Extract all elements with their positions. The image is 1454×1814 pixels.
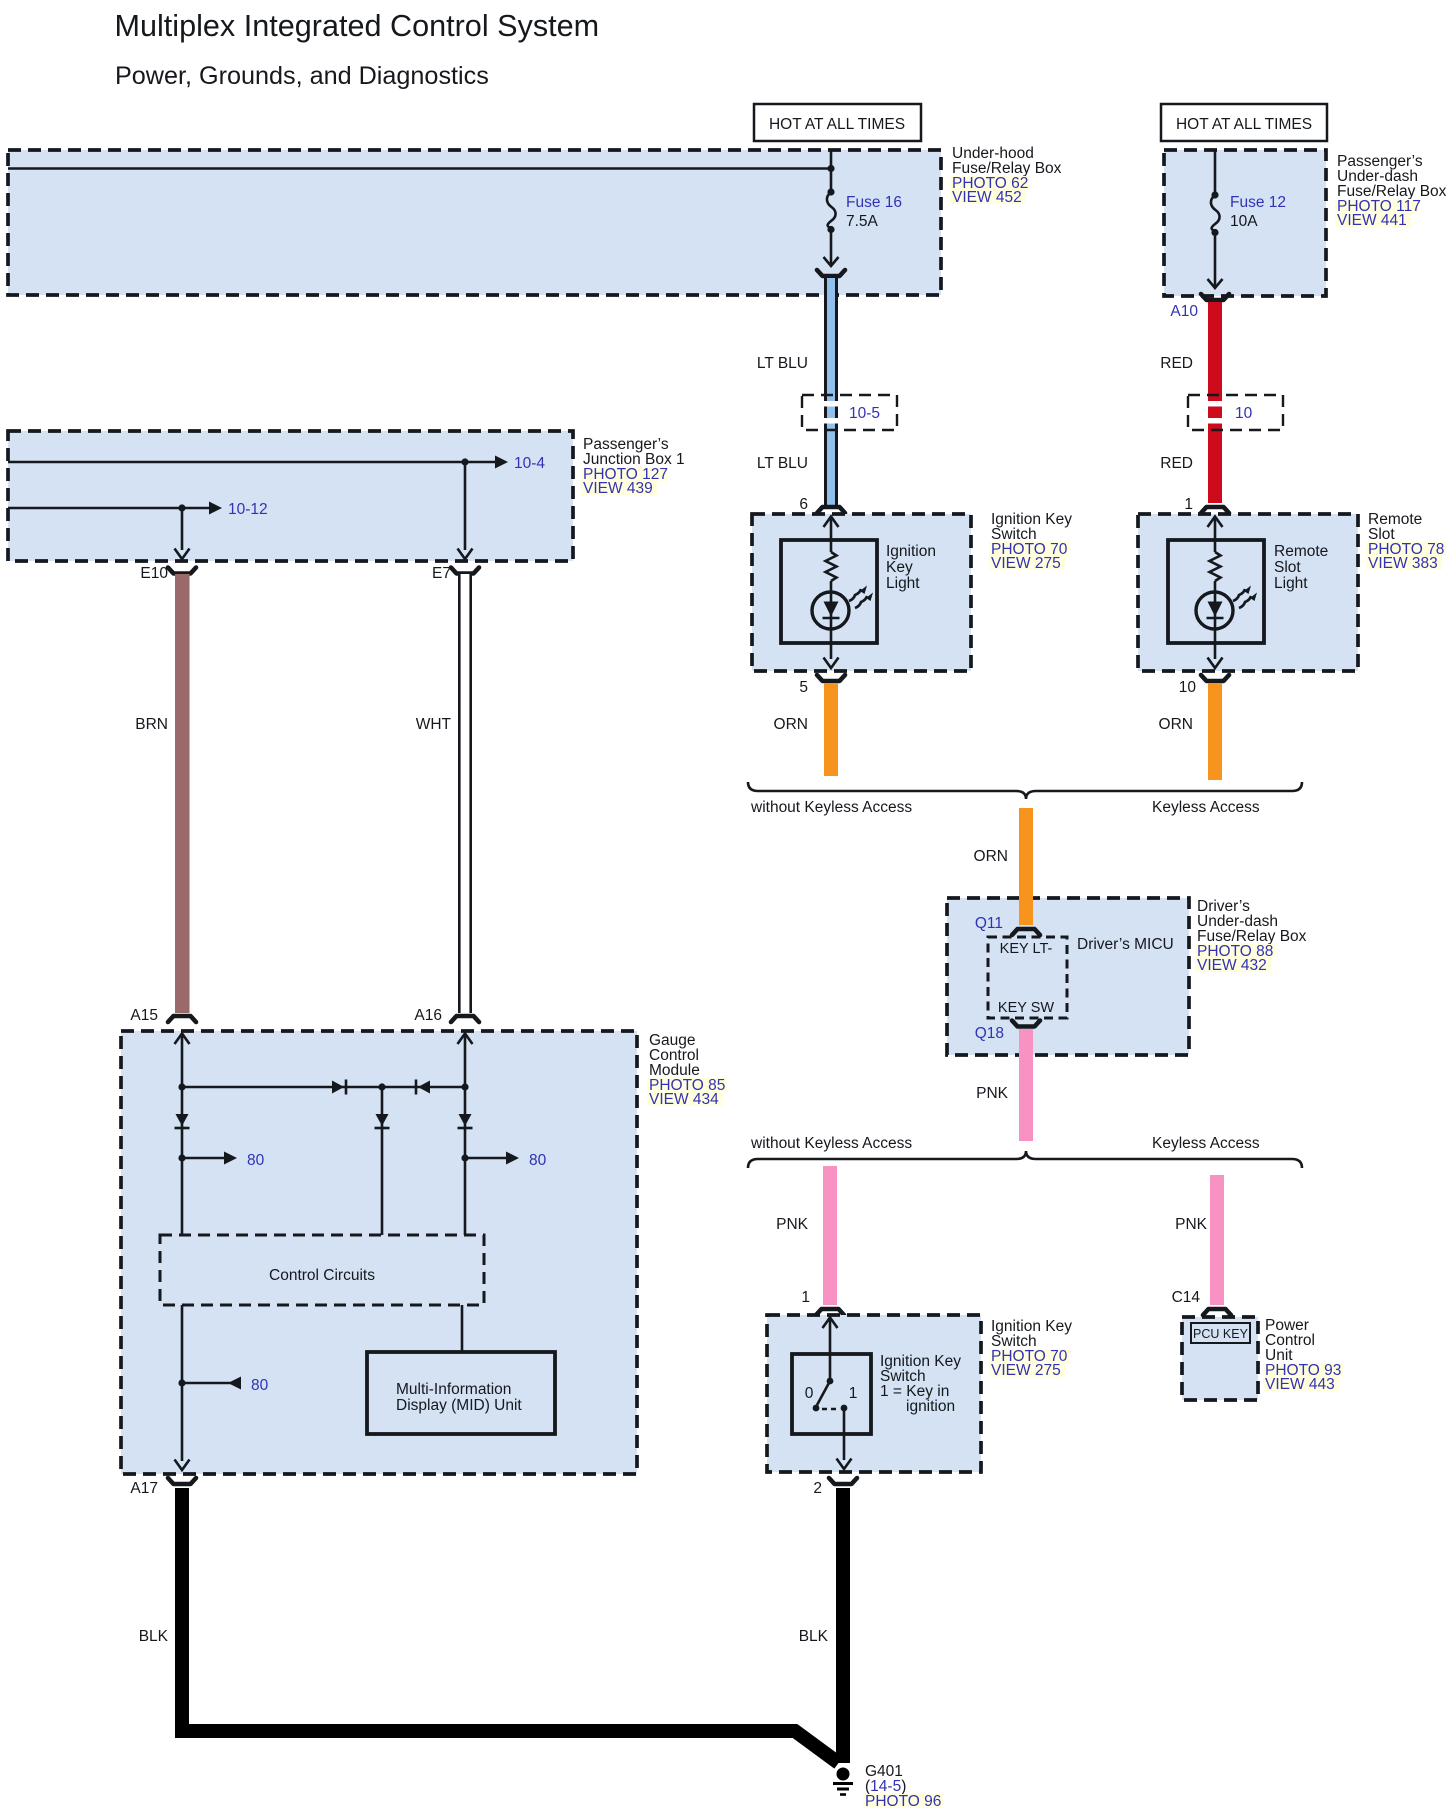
svg-text:10-5: 10-5 bbox=[849, 405, 880, 422]
label: Gauge Control Module bbox=[647, 1032, 727, 1108]
svg-text:VIEW 439: VIEW 439 bbox=[583, 480, 653, 497]
svg-text:80: 80 bbox=[529, 1152, 547, 1169]
svg-text:HOT AT ALL TIMES: HOT AT ALL TIMES bbox=[769, 116, 905, 133]
label: Driver's Under-dash Fuse/Relay Box bbox=[1195, 898, 1307, 974]
label G401 (14-5) PHOTO 96 bbox=[863, 1763, 943, 1810]
connector cap bottom of LT BLU bbox=[817, 507, 845, 513]
ignition key switch box (bottom) bbox=[767, 1315, 981, 1472]
svg-text:BRN: BRN bbox=[135, 716, 168, 733]
wire to 10-4 bbox=[8, 461, 497, 464]
arrow down into connector bbox=[824, 257, 839, 266]
LED light emission arrows bbox=[849, 586, 873, 609]
ignition key switch box bbox=[752, 514, 971, 671]
svg-text:C14: C14 bbox=[1172, 1289, 1201, 1306]
wire to 80 (right) bbox=[465, 1157, 508, 1160]
node 80-left bbox=[178, 1154, 185, 1161]
svg-text:1: 1 bbox=[801, 1289, 810, 1306]
MID unit box bbox=[367, 1352, 555, 1434]
wire down to switch pivot bbox=[829, 1318, 832, 1381]
diode D1 (points right) bbox=[332, 1080, 346, 1095]
svg-text:10: 10 bbox=[1235, 405, 1253, 422]
svg-text:5: 5 bbox=[799, 679, 808, 696]
connector cap bottom of PNK (right) bbox=[1203, 1309, 1231, 1315]
svg-text:7.5A: 7.5A bbox=[846, 213, 879, 230]
switch SW1 (0/1) bbox=[805, 1378, 858, 1412]
node right bbox=[461, 1083, 468, 1090]
svg-text:10: 10 bbox=[1179, 679, 1197, 696]
svg-text:E7: E7 bbox=[432, 565, 451, 582]
connector cap bottom of PNK (left) bbox=[816, 1309, 844, 1315]
wire horizontal diode row bbox=[182, 1086, 465, 1089]
svg-text:VIEW 434: VIEW 434 bbox=[649, 1091, 719, 1108]
svg-text:VIEW 432: VIEW 432 bbox=[1197, 957, 1267, 974]
resistor (key light) bbox=[826, 552, 837, 581]
svg-text:PNK: PNK bbox=[976, 1085, 1009, 1102]
fuse F16 (Fuse 16 7.5A) bbox=[827, 188, 902, 233]
wire E7 drop bbox=[464, 462, 467, 550]
svg-text:RED: RED bbox=[1160, 455, 1193, 472]
label: Remote Slot bbox=[1366, 511, 1446, 572]
svg-text:10A: 10A bbox=[1230, 213, 1258, 230]
connector cap Q18 bbox=[1012, 1021, 1040, 1027]
fuse F12 (Fuse 12 10A) bbox=[1211, 191, 1286, 236]
in-line connector 10 bbox=[1188, 395, 1283, 430]
svg-text:1: 1 bbox=[849, 1385, 858, 1402]
svg-text:Slot: Slot bbox=[1274, 559, 1301, 576]
svg-text:ORN: ORN bbox=[774, 716, 808, 733]
node on 10-12 wire bbox=[178, 504, 185, 511]
passenger's under-dash fuse/relay box bbox=[1164, 150, 1326, 296]
svg-text:VIEW 443: VIEW 443 bbox=[1265, 1376, 1335, 1393]
connector cap top of BLK (right) bbox=[829, 1478, 857, 1484]
arrow up into box (bottom switch) bbox=[823, 1318, 838, 1329]
svg-text:LT BLU: LT BLU bbox=[757, 355, 808, 372]
brace without/with keyless access (lower) bbox=[748, 1151, 1302, 1168]
svg-text:Light: Light bbox=[1274, 575, 1308, 592]
svg-text:WHT: WHT bbox=[416, 716, 452, 733]
arrow up into module (A16) bbox=[458, 1034, 473, 1045]
label: HOT AT ALL TIMES (left) bbox=[754, 104, 921, 141]
label: Ignition Key Switch bbox=[989, 511, 1072, 572]
svg-text:PNK: PNK bbox=[1175, 1216, 1208, 1233]
wire PNK (right) bbox=[1210, 1175, 1224, 1305]
wire down to resistor bbox=[1214, 517, 1217, 552]
switch inner box bbox=[792, 1354, 871, 1434]
svg-text:Q18: Q18 bbox=[975, 1025, 1004, 1042]
node: bus junction bbox=[827, 165, 834, 172]
brace without/with keyless access (upper) bbox=[748, 782, 1302, 799]
wire middle vertical bbox=[381, 1087, 384, 1235]
svg-text:Control Circuits: Control Circuits bbox=[269, 1267, 375, 1284]
node middle bbox=[378, 1083, 385, 1090]
wire resistor to LED bbox=[830, 581, 833, 593]
svg-text:A15: A15 bbox=[130, 1007, 158, 1024]
diode D2 (points left) bbox=[416, 1080, 430, 1095]
arrowhead 10-4 bbox=[495, 456, 508, 469]
svg-text:VIEW 275: VIEW 275 bbox=[991, 555, 1061, 572]
arrow down E10 bbox=[175, 549, 190, 560]
svg-text:A16: A16 bbox=[414, 1007, 442, 1024]
arrow down out of module (A17) bbox=[175, 1460, 190, 1471]
label: Ignition Key Switch (bottom) bbox=[989, 1318, 1072, 1379]
wire resistor to LED bbox=[1214, 581, 1217, 593]
svg-text:VIEW 452: VIEW 452 bbox=[952, 189, 1022, 206]
driver's under-dash fuse/relay box bbox=[947, 898, 1189, 1055]
svg-text:PHOTO 96: PHOTO 96 bbox=[865, 1793, 941, 1810]
svg-text:PNK: PNK bbox=[776, 1216, 809, 1233]
svg-text:RED: RED bbox=[1160, 355, 1193, 372]
wire BRN bbox=[175, 574, 190, 1013]
svg-text:ORN: ORN bbox=[974, 848, 1008, 865]
wire: bus line in under-hood box bbox=[8, 167, 831, 170]
svg-text:Remote: Remote bbox=[1274, 543, 1328, 560]
connector cap top of WHT bbox=[451, 568, 479, 574]
label: HOT AT ALL TIMES (right) bbox=[1161, 104, 1327, 141]
svg-text:Light: Light bbox=[886, 575, 920, 592]
arrow up into box bbox=[824, 517, 839, 528]
svg-text:VIEW 383: VIEW 383 bbox=[1368, 555, 1438, 572]
svg-text:6: 6 bbox=[799, 496, 808, 513]
remote slot light inner box bbox=[1168, 540, 1264, 643]
svg-text:Driver’s MICU: Driver’s MICU bbox=[1077, 936, 1174, 953]
node 80-in bbox=[178, 1379, 185, 1386]
wire: from HOT down bbox=[1214, 150, 1217, 194]
wire: fuse to arrow bbox=[830, 231, 833, 265]
power control unit box bbox=[1182, 1317, 1258, 1400]
ignition key light inner box bbox=[781, 540, 877, 643]
wire RED (vertical bar) bbox=[1208, 302, 1222, 503]
wire BLK (left, to ground) bbox=[182, 1488, 839, 1763]
LED lamp (remote slot light) bbox=[1196, 592, 1233, 659]
connector cap bottom of WHT bbox=[451, 1016, 479, 1022]
wire switch to bottom bbox=[843, 1408, 846, 1460]
svg-text:E10: E10 bbox=[140, 565, 168, 582]
wire control circuits to MID bbox=[461, 1305, 464, 1352]
svg-text:ignition: ignition bbox=[906, 1398, 955, 1415]
arrow down E7 bbox=[458, 549, 473, 560]
PCU KEY inner box bbox=[1191, 1323, 1250, 1343]
wire ORN (left) bbox=[824, 683, 838, 776]
svg-text:without Keyless Access: without Keyless Access bbox=[750, 1135, 912, 1152]
connector cap top of LT BLU bbox=[817, 270, 845, 276]
arrowhead 80 (left) bbox=[224, 1152, 237, 1165]
wire PNK (middle) bbox=[1019, 1029, 1033, 1141]
connector cap top of BRN bbox=[168, 568, 196, 574]
svg-text:VIEW 275: VIEW 275 bbox=[991, 1362, 1061, 1379]
wire: fuse to arrow bbox=[1214, 234, 1217, 287]
diode D5 (down, right wire) bbox=[458, 1114, 473, 1128]
arrowhead 80 (right) bbox=[506, 1152, 519, 1165]
remote slot box bbox=[1138, 514, 1358, 671]
svg-text:1: 1 bbox=[1184, 496, 1193, 513]
node left bbox=[178, 1083, 185, 1090]
arrow down out of box bbox=[1208, 658, 1223, 669]
svg-text:Fuse 16: Fuse 16 bbox=[846, 194, 902, 211]
svg-text:VIEW 441: VIEW 441 bbox=[1337, 212, 1407, 229]
wire BLK (right, to ground) bbox=[836, 1488, 850, 1763]
svg-text:Multiplex Integrated Control S: Multiplex Integrated Control System bbox=[115, 9, 600, 43]
arrow up into module (A15) bbox=[175, 1034, 190, 1045]
arrow up into box bbox=[1208, 517, 1223, 528]
connector cap top of BLK (left) bbox=[168, 1478, 196, 1484]
wire E10 drop bbox=[181, 508, 184, 550]
svg-text:without Keyless Access: without Keyless Access bbox=[750, 799, 912, 816]
arrowhead 10-12 bbox=[209, 502, 222, 515]
node 80-right bbox=[461, 1154, 468, 1161]
svg-text:KEY SW: KEY SW bbox=[998, 1000, 1054, 1016]
gauge control module box bbox=[121, 1031, 637, 1474]
label: Passenger's Under-dash Fuse/Relay Box bbox=[1335, 153, 1447, 229]
label: Under-hood Fuse/Relay Box bbox=[950, 145, 1062, 206]
svg-text:Multi-Information: Multi-Information bbox=[396, 1381, 511, 1398]
connector cap top of ORN bbox=[817, 675, 845, 681]
wire left vertical bbox=[181, 1034, 184, 1235]
label: switch description bbox=[880, 1353, 961, 1415]
wire down to resistor bbox=[830, 517, 833, 552]
wire to 10-12 bbox=[8, 507, 211, 510]
svg-text:Keyless Access: Keyless Access bbox=[1152, 799, 1260, 816]
svg-text:ORN: ORN bbox=[1159, 716, 1193, 733]
label: Power Control Unit bbox=[1263, 1317, 1343, 1393]
LED lamp (ignition key light) bbox=[812, 592, 849, 659]
svg-text:80: 80 bbox=[251, 1377, 269, 1394]
wire WHT bbox=[458, 574, 472, 1013]
label Multi-Information Display (MID) Unit bbox=[396, 1381, 522, 1414]
arrow down bbox=[1208, 279, 1223, 288]
svg-text:A17: A17 bbox=[130, 1480, 158, 1497]
svg-text:0: 0 bbox=[805, 1385, 814, 1402]
svg-text:Key: Key bbox=[886, 559, 913, 576]
svg-text:Q11: Q11 bbox=[975, 915, 1003, 932]
svg-text:HOT AT ALL TIMES: HOT AT ALL TIMES bbox=[1176, 116, 1312, 133]
LED light emission arrows bbox=[1233, 586, 1257, 609]
wire to 80 (left) bbox=[182, 1157, 226, 1160]
svg-text:10-12: 10-12 bbox=[228, 501, 268, 518]
in-line connector 10-5 bbox=[802, 395, 897, 430]
label: Remote Slot Light bbox=[1274, 543, 1328, 592]
diode D3 (down, left wire) bbox=[175, 1114, 190, 1128]
svg-text:PCU KEY: PCU KEY bbox=[1193, 1327, 1249, 1341]
connector cap bottom of BRN bbox=[168, 1016, 196, 1022]
wire ORN (middle) bbox=[1019, 808, 1033, 925]
label: Ignition Key Light bbox=[886, 543, 936, 592]
arrow down out of box bbox=[824, 658, 839, 669]
node on 10-4 wire bbox=[461, 458, 468, 465]
wire to 80 (in) bbox=[182, 1382, 241, 1385]
wire ORN (right) bbox=[1208, 683, 1222, 780]
connector cap Q11 bbox=[1012, 929, 1040, 935]
connector cap top of ORN (right) bbox=[1201, 675, 1229, 681]
connector cap bottom of RED bbox=[1201, 507, 1229, 513]
svg-text:KEY LT-: KEY LT- bbox=[1000, 941, 1053, 957]
svg-text:2: 2 bbox=[813, 1480, 822, 1497]
control circuits box bbox=[160, 1235, 484, 1305]
svg-text:80: 80 bbox=[247, 1152, 265, 1169]
svg-text:BLK: BLK bbox=[799, 1628, 829, 1645]
ground G401 bbox=[833, 1768, 853, 1795]
svg-text:10-4: 10-4 bbox=[514, 455, 545, 472]
svg-text:LT BLU: LT BLU bbox=[757, 455, 808, 472]
svg-text:Power, Grounds, and Diagnostic: Power, Grounds, and Diagnostics bbox=[115, 62, 489, 90]
svg-text:Fuse 12: Fuse 12 bbox=[1230, 194, 1286, 211]
driver's MICU inner box bbox=[988, 937, 1067, 1018]
wire PNK (left) bbox=[823, 1166, 837, 1305]
svg-text:A10: A10 bbox=[1170, 303, 1198, 320]
diode D4 (down, middle wire) bbox=[375, 1114, 390, 1128]
label: Passenger's Junction Box 1 bbox=[581, 436, 685, 497]
passenger's junction box 1 bbox=[8, 431, 573, 561]
svg-text:Display (MID) Unit: Display (MID) Unit bbox=[396, 1397, 522, 1414]
connector cap top of RED bbox=[1201, 294, 1229, 300]
under-hood fuse/relay box bbox=[8, 150, 941, 295]
svg-text:Keyless Access: Keyless Access bbox=[1152, 1135, 1260, 1152]
arrowhead 80 (in, points left) bbox=[228, 1377, 241, 1390]
svg-text:BLK: BLK bbox=[139, 1628, 169, 1645]
resistor (slot light) bbox=[1210, 552, 1221, 581]
wire right vertical bbox=[464, 1034, 467, 1235]
wire: from HOT down to bus bbox=[830, 150, 833, 191]
arrow down out of box (pin 2) bbox=[837, 1459, 852, 1470]
wire LT BLU (vertical bar) bbox=[824, 278, 838, 505]
wire below control circuits (left) bbox=[181, 1305, 184, 1461]
svg-text:Ignition: Ignition bbox=[886, 543, 936, 560]
